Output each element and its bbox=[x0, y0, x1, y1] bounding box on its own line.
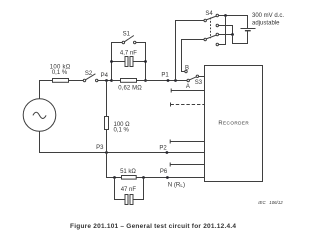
node P3 bbox=[105, 151, 108, 154]
wire S4 contact4 crossover to plus bbox=[219, 16, 226, 45]
wire S3 to recorder bbox=[199, 76, 205, 78]
terminal B bbox=[185, 70, 187, 72]
wire capacitor branch left bbox=[112, 61, 126, 63]
node P4 bbox=[105, 79, 108, 82]
junction node left mid bbox=[110, 60, 113, 63]
svg-text:S2: S2 bbox=[85, 71, 93, 77]
svg-text:N (RL): N (RL) bbox=[168, 181, 185, 188]
wire P3 down to 51k network bbox=[107, 153, 122, 178]
recorder stub terminal 2 dashed bbox=[170, 103, 172, 107]
resistor R 100 kOhm bbox=[53, 79, 69, 83]
wire source bottom to recorder P2 line bbox=[40, 131, 205, 152]
S4 mechanical link dashed bbox=[210, 18, 212, 39]
node P1 bbox=[167, 79, 170, 82]
junction node right mid bbox=[144, 60, 147, 63]
recorder box U1 bbox=[205, 66, 263, 182]
svg-text:Figure 201.101 – General test: Figure 201.101 – General test circuit fo… bbox=[70, 223, 236, 230]
svg-text:47 nF: 47 nF bbox=[121, 187, 137, 193]
svg-text:adjustable: adjustable bbox=[252, 21, 280, 27]
node P2 bbox=[166, 151, 169, 154]
svg-text:A: A bbox=[186, 84, 190, 90]
svg-text:IEC 106/12: IEC 106/12 bbox=[258, 200, 283, 205]
wire S4 contact1 to battery plus bbox=[219, 16, 248, 29]
wire B to S4 pole2 bbox=[182, 40, 205, 72]
wire S2 to node P4 bbox=[98, 80, 112, 82]
recorder stub terminal 1 bbox=[171, 89, 204, 93]
wire S4 contact3 to minus node bbox=[219, 34, 233, 36]
switch S2 bbox=[83, 74, 98, 82]
wire R1 to S2 bbox=[69, 80, 84, 82]
node 51k left bbox=[113, 176, 116, 179]
wire source top to R1 bbox=[40, 81, 53, 99]
wire battery minus return bbox=[233, 31, 248, 44]
wire P4 down through R 100 Ohm to P3 bbox=[106, 81, 108, 153]
wire R 0,62 MOhm to S3 bbox=[137, 80, 188, 82]
node battery plus junction bbox=[224, 14, 227, 17]
svg-text:S1: S1 bbox=[123, 32, 131, 38]
svg-text:S4: S4 bbox=[205, 11, 213, 17]
svg-text:P1: P1 bbox=[161, 72, 169, 78]
junction node left bottom bbox=[110, 79, 113, 82]
resistor R 0,62 MOhm bbox=[121, 79, 137, 83]
svg-text:P3: P3 bbox=[96, 145, 104, 151]
wire parallel-network left vertical bbox=[112, 43, 123, 81]
svg-text:B: B bbox=[185, 65, 189, 71]
wire S1 to right vertical bbox=[136, 43, 146, 62]
wire S4 pole1 branch bbox=[176, 21, 205, 81]
resistor R 100 Ohm bbox=[105, 117, 109, 130]
capacitor C 4,7 nF bbox=[125, 57, 133, 67]
wire R 51k to recorder P6 line bbox=[136, 177, 204, 179]
wire capacitor branch right bbox=[133, 61, 146, 63]
switch S1 bbox=[122, 36, 136, 44]
svg-text:0,1 %: 0,1 % bbox=[114, 128, 130, 134]
switch S4 pole 2 bbox=[204, 33, 219, 45]
AC source G1 bbox=[23, 99, 56, 132]
svg-text:P6: P6 bbox=[160, 169, 168, 175]
svg-text:4,7 nF: 4,7 nF bbox=[120, 51, 137, 57]
svg-text:300 mV d.c.: 300 mV d.c. bbox=[252, 13, 284, 19]
svg-text:0,1 %: 0,1 % bbox=[52, 70, 68, 76]
wire right vertical down to main line bbox=[145, 62, 147, 81]
svg-text:P4: P4 bbox=[101, 73, 109, 79]
svg-text:P2: P2 bbox=[159, 145, 167, 151]
resistor R 51 kOhm bbox=[122, 176, 137, 180]
node 51k right bbox=[142, 176, 145, 179]
svg-text:51 kΩ: 51 kΩ bbox=[120, 169, 136, 175]
wire S4 contact2 to minus node bbox=[219, 26, 233, 35]
wire capacitor 47 nF branch bbox=[115, 178, 144, 200]
recorder stub terminal 3 bbox=[170, 140, 204, 144]
switch S4 pole 1 bbox=[204, 14, 219, 26]
node P6 bbox=[166, 176, 169, 179]
svg-text:0,62 MΩ: 0,62 MΩ bbox=[118, 85, 142, 91]
svg-text:S3: S3 bbox=[195, 80, 203, 86]
wire node to R 0,62 MOhm bbox=[112, 80, 121, 82]
node junction S4 branch bbox=[174, 79, 177, 82]
junction node right bottom bbox=[144, 79, 147, 82]
switch S3 bbox=[187, 75, 199, 82]
capacitor C 47 nF bbox=[125, 195, 133, 205]
recorder stub terminal 4 bbox=[170, 163, 204, 167]
node battery minus junction bbox=[231, 33, 234, 36]
battery BT 300 mV d.c. bbox=[241, 29, 256, 31]
